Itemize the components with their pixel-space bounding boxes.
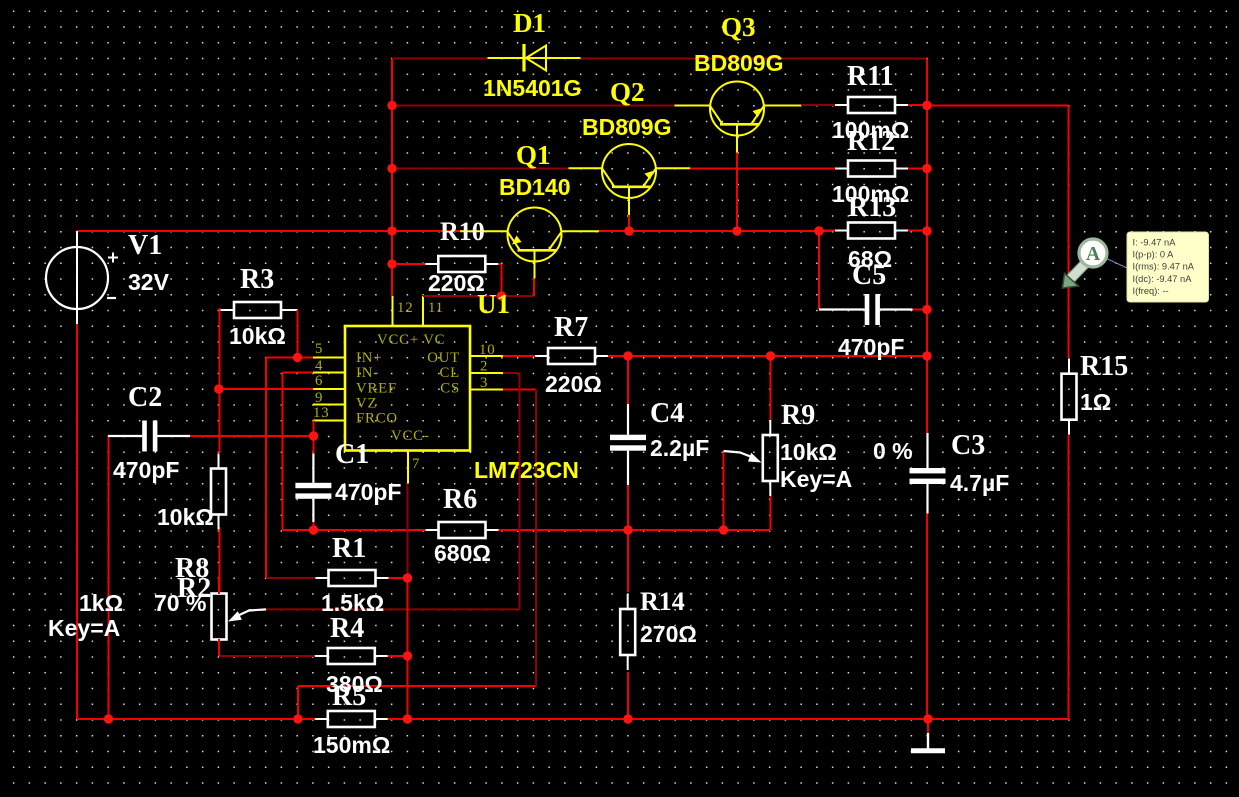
svg-text:LM723CN: LM723CN xyxy=(474,457,579,483)
svg-text:V1: V1 xyxy=(128,230,162,261)
svg-text:R4: R4 xyxy=(330,613,364,644)
svg-text:Q3: Q3 xyxy=(721,12,756,42)
svg-text:220Ω: 220Ω xyxy=(545,371,602,397)
svg-text:13: 13 xyxy=(313,405,329,421)
svg-text:CL: CL xyxy=(439,365,460,381)
svg-text:9: 9 xyxy=(315,390,323,406)
svg-text:VCC-: VCC- xyxy=(391,428,430,444)
svg-text:R3: R3 xyxy=(240,264,274,295)
svg-text:BD140: BD140 xyxy=(499,174,571,200)
svg-text:VCC+ VC: VCC+ VC xyxy=(377,332,445,348)
svg-text:CS: CS xyxy=(440,381,460,397)
svg-text:10: 10 xyxy=(479,342,495,358)
svg-text:Q1: Q1 xyxy=(516,140,551,170)
svg-text:0 %: 0 % xyxy=(873,438,913,464)
svg-text:FRCO: FRCO xyxy=(356,411,398,427)
svg-text:5: 5 xyxy=(315,341,323,357)
svg-text:4: 4 xyxy=(315,358,323,374)
svg-text:VZ: VZ xyxy=(356,396,377,412)
svg-text:1N5401G: 1N5401G xyxy=(483,75,581,101)
svg-text:470pF: 470pF xyxy=(335,479,401,505)
svg-text:R13: R13 xyxy=(848,192,896,223)
svg-text:Key=A: Key=A xyxy=(48,615,120,641)
svg-text:32V: 32V xyxy=(128,269,170,295)
svg-text:I(p-p): 0 A: I(p-p): 0 A xyxy=(1133,250,1175,260)
svg-text:I: -9.47 nA: I: -9.47 nA xyxy=(1133,238,1177,248)
svg-text:4.7µF: 4.7µF xyxy=(950,470,1009,496)
svg-text:IN+: IN+ xyxy=(356,350,382,366)
svg-text:Key=A: Key=A xyxy=(780,466,852,492)
svg-text:3: 3 xyxy=(480,375,488,391)
svg-text:1Ω: 1Ω xyxy=(1080,389,1111,415)
svg-text:270Ω: 270Ω xyxy=(640,621,697,647)
svg-text:OUT: OUT xyxy=(427,350,460,366)
svg-text:BD809G: BD809G xyxy=(582,114,671,140)
svg-text:C4: C4 xyxy=(650,398,684,429)
svg-text:10kΩ: 10kΩ xyxy=(157,504,214,530)
svg-text:R15: R15 xyxy=(1080,351,1128,382)
svg-text:I(rms): 9.47 nA: I(rms): 9.47 nA xyxy=(1133,262,1195,272)
svg-text:470pF: 470pF xyxy=(838,334,904,360)
svg-text:R1: R1 xyxy=(332,533,366,564)
svg-text:BD809G: BD809G xyxy=(694,50,783,76)
svg-text:7: 7 xyxy=(412,456,420,472)
svg-text:C3: C3 xyxy=(951,430,985,461)
svg-text:A: A xyxy=(1086,244,1100,265)
svg-text:D1: D1 xyxy=(513,8,546,38)
svg-text:680Ω: 680Ω xyxy=(434,540,491,566)
svg-text:Q2: Q2 xyxy=(610,77,645,107)
svg-text:1kΩ: 1kΩ xyxy=(79,590,123,616)
svg-text:C1: C1 xyxy=(335,439,369,470)
svg-text:R5: R5 xyxy=(332,681,366,712)
svg-text:R10: R10 xyxy=(440,217,485,246)
svg-text:2.2µF: 2.2µF xyxy=(650,435,709,461)
svg-text:R7: R7 xyxy=(554,312,588,343)
svg-text:I(dc): -9.47 nA: I(dc): -9.47 nA xyxy=(1133,274,1193,284)
svg-text:10kΩ: 10kΩ xyxy=(780,439,837,465)
svg-text:R9: R9 xyxy=(781,400,815,431)
svg-text:470pF: 470pF xyxy=(113,457,179,483)
svg-text:2: 2 xyxy=(480,359,488,375)
svg-text:11: 11 xyxy=(428,300,444,316)
svg-text:R6: R6 xyxy=(443,484,477,515)
svg-text:U1: U1 xyxy=(477,289,510,319)
svg-text:VREF: VREF xyxy=(356,381,397,397)
svg-text:R12: R12 xyxy=(847,126,895,157)
svg-text:C2: C2 xyxy=(128,382,162,413)
svg-text:12: 12 xyxy=(397,300,413,316)
svg-text:C5: C5 xyxy=(852,260,886,291)
svg-text:I(freq): --: I(freq): -- xyxy=(1133,286,1169,296)
svg-text:R14: R14 xyxy=(640,587,685,616)
svg-text:150mΩ: 150mΩ xyxy=(313,732,390,758)
svg-text:IN-: IN- xyxy=(356,365,379,381)
svg-text:10kΩ: 10kΩ xyxy=(229,323,286,349)
svg-text:6: 6 xyxy=(315,373,323,389)
svg-text:70 %: 70 % xyxy=(154,590,206,616)
svg-text:R11: R11 xyxy=(847,61,894,92)
